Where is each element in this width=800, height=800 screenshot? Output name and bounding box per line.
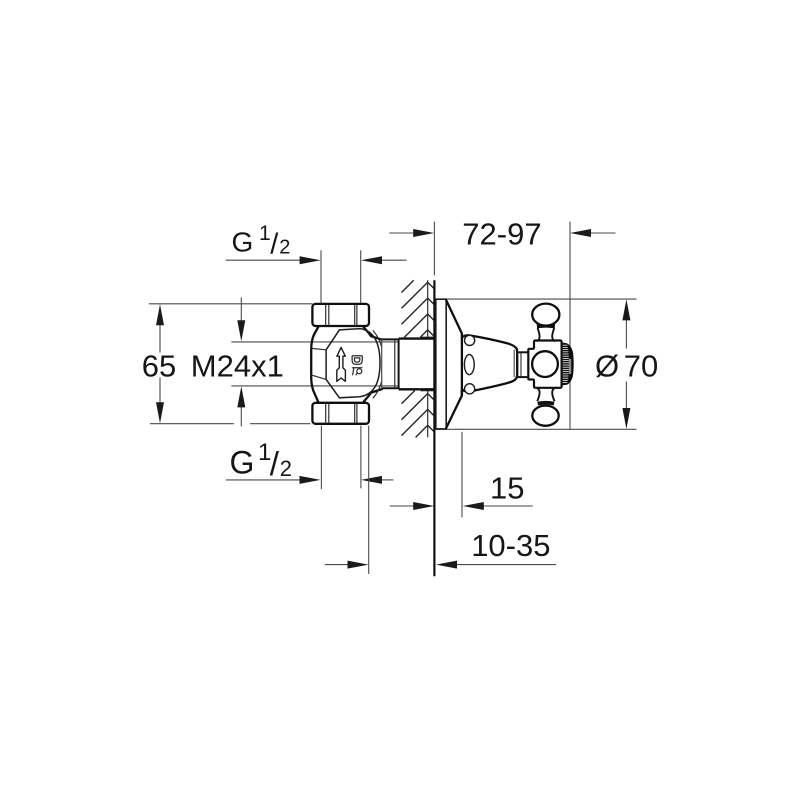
arrow left-pointing G1/2 bottom <box>361 476 382 484</box>
arrow left-pointing 10-35 <box>436 561 457 569</box>
knurl cap highlight <box>569 359 571 374</box>
extension line G1/2 top right <box>360 250 362 303</box>
bell front rim inner line <box>513 350 515 378</box>
extension line M24x1 top <box>231 341 398 343</box>
svg-text:1: 1 <box>259 222 271 245</box>
dimension G 1/2 top line left <box>226 259 303 261</box>
arrow up-pointing d70 <box>622 299 630 320</box>
valve body right outline bottom <box>364 389 382 402</box>
top arm collar <box>537 321 556 328</box>
bottom ball <box>532 406 558 426</box>
bonnet ring <box>382 339 399 388</box>
extension line d70 top <box>436 298 637 300</box>
extension line G1/2 bottom right <box>360 426 362 489</box>
arrow left-pointing 15 <box>463 502 484 510</box>
dimension G 1/2 bottom right tail <box>379 479 393 481</box>
dimension 72-97 right arrow tail <box>588 232 616 234</box>
svg-text:G: G <box>232 227 254 258</box>
knurl ridges <box>563 345 569 382</box>
valve body right outline top <box>364 327 382 340</box>
dimension 10-35 left tail <box>325 564 351 566</box>
svg-text:Ø: Ø <box>595 348 619 383</box>
dimension d70 lower tail <box>625 382 627 412</box>
arrow down-pointing 65 <box>156 402 164 423</box>
svg-text:M24x1: M24x1 <box>191 348 284 383</box>
bell bead middle oval <box>464 355 474 375</box>
handle bell skirt <box>462 335 517 394</box>
dimension 10-35 right tail <box>454 564 556 566</box>
extension line d70 bottom <box>436 428 637 430</box>
rough wall line upper <box>427 280 429 337</box>
finished wall face line <box>433 280 435 576</box>
arrow left-pointing G1/2 top right <box>361 256 382 264</box>
arrow right-pointing 15 <box>413 502 434 510</box>
rough wall line lower <box>427 391 429 438</box>
svg-text:G: G <box>230 444 255 480</box>
knurled cap <box>563 343 574 386</box>
escutcheon cone <box>446 300 462 428</box>
escutcheon flange <box>436 299 446 429</box>
face chamfer panel bottom edge <box>311 375 326 380</box>
bottom arm collar <box>537 401 554 406</box>
arrow right-pointing 10-35 <box>348 561 369 569</box>
extension line M24x1 bottom <box>231 385 398 387</box>
arrow right-pointing 72-97 <box>413 229 434 237</box>
hub center circle <box>532 351 558 377</box>
top nut facet lines <box>326 305 357 325</box>
svg-text:70: 70 <box>624 348 658 383</box>
valve face octagon <box>326 329 380 398</box>
wall hatching plaster layer <box>428 282 435 432</box>
arrow up-pointing 65 <box>156 304 164 325</box>
dimension M24x1 lower tail <box>240 405 242 427</box>
extension line 65 bottom segment b <box>250 423 310 425</box>
svg-text:65: 65 <box>142 348 176 383</box>
valve bottom hex nut <box>312 403 369 424</box>
top arm neck <box>537 328 555 341</box>
body fillet arc bottom right <box>373 381 382 398</box>
face chamfer panel top edge <box>311 348 326 349</box>
dimension d70 upper tail <box>625 317 627 349</box>
DR marking <box>352 356 362 375</box>
svg-text:/: / <box>270 229 279 261</box>
stem bottom edge <box>399 388 435 390</box>
wall hole edge bottom <box>421 390 434 392</box>
bonnet inner line <box>394 340 396 387</box>
bell bead bottom <box>465 384 475 394</box>
arrow down-pointing d70 <box>622 408 630 429</box>
dimension 65 line upper <box>159 322 161 353</box>
dimension 72-97 left arrow tail <box>389 232 416 234</box>
svg-text:10-35: 10-35 <box>471 528 550 563</box>
arrow down-pointing M24x1 <box>237 320 245 341</box>
stem top edge <box>399 337 435 339</box>
svg-text:/: / <box>270 445 280 482</box>
arrow left-pointing 72-97 <box>570 229 591 237</box>
dimension 15 right tail <box>481 505 533 507</box>
valve top hex nut <box>312 304 369 326</box>
wall hatching rough layer <box>402 280 428 437</box>
handle stem bottom line <box>517 376 528 378</box>
extension line 65 top <box>149 303 313 305</box>
svg-text:2: 2 <box>279 236 290 258</box>
extension line 65 bottom segment a <box>150 423 234 425</box>
cross hub block <box>528 341 561 388</box>
arrow up-pointing M24x1 <box>237 386 245 407</box>
top ball <box>532 304 559 326</box>
dimension 15 left tail <box>390 505 416 507</box>
handle stem top line <box>517 351 528 353</box>
valve body left outline <box>311 327 318 402</box>
svg-text:2: 2 <box>280 456 292 481</box>
dimension G 1/2 bottom line left <box>226 479 303 481</box>
dimension M24x1 upper tail <box>240 297 242 323</box>
extension line nut edge 10-35 reference <box>368 426 370 574</box>
dimension G 1/2 top line right tail <box>379 259 407 261</box>
bottom nut facet lines <box>326 404 357 423</box>
arrow right-pointing G1/2 top left <box>300 256 321 264</box>
svg-text:72-97: 72-97 <box>462 216 541 251</box>
svg-text:15: 15 <box>490 471 524 506</box>
bell stem joint line <box>520 353 522 377</box>
extension line G1/2 top left <box>320 250 322 303</box>
flow direction arrow symbol <box>337 347 346 381</box>
extension line G1/2 bottom left <box>320 426 322 490</box>
bell bead top <box>465 335 475 345</box>
arrow right-pointing G1/2 bottom <box>300 476 321 484</box>
extension line 72-97 right (handle end) <box>569 222 571 429</box>
bottom arm neck <box>537 388 555 401</box>
extension line 15 right (escutcheon front) <box>461 432 463 518</box>
dimension 65 line lower <box>159 378 161 407</box>
label G 1/2 top <box>232 222 291 261</box>
body fillet arc top right <box>373 330 382 347</box>
extension line 72-97 left (wall face upper) <box>433 222 435 276</box>
label G 1/2 bottom <box>230 439 293 482</box>
wall hole edge top <box>421 336 434 338</box>
